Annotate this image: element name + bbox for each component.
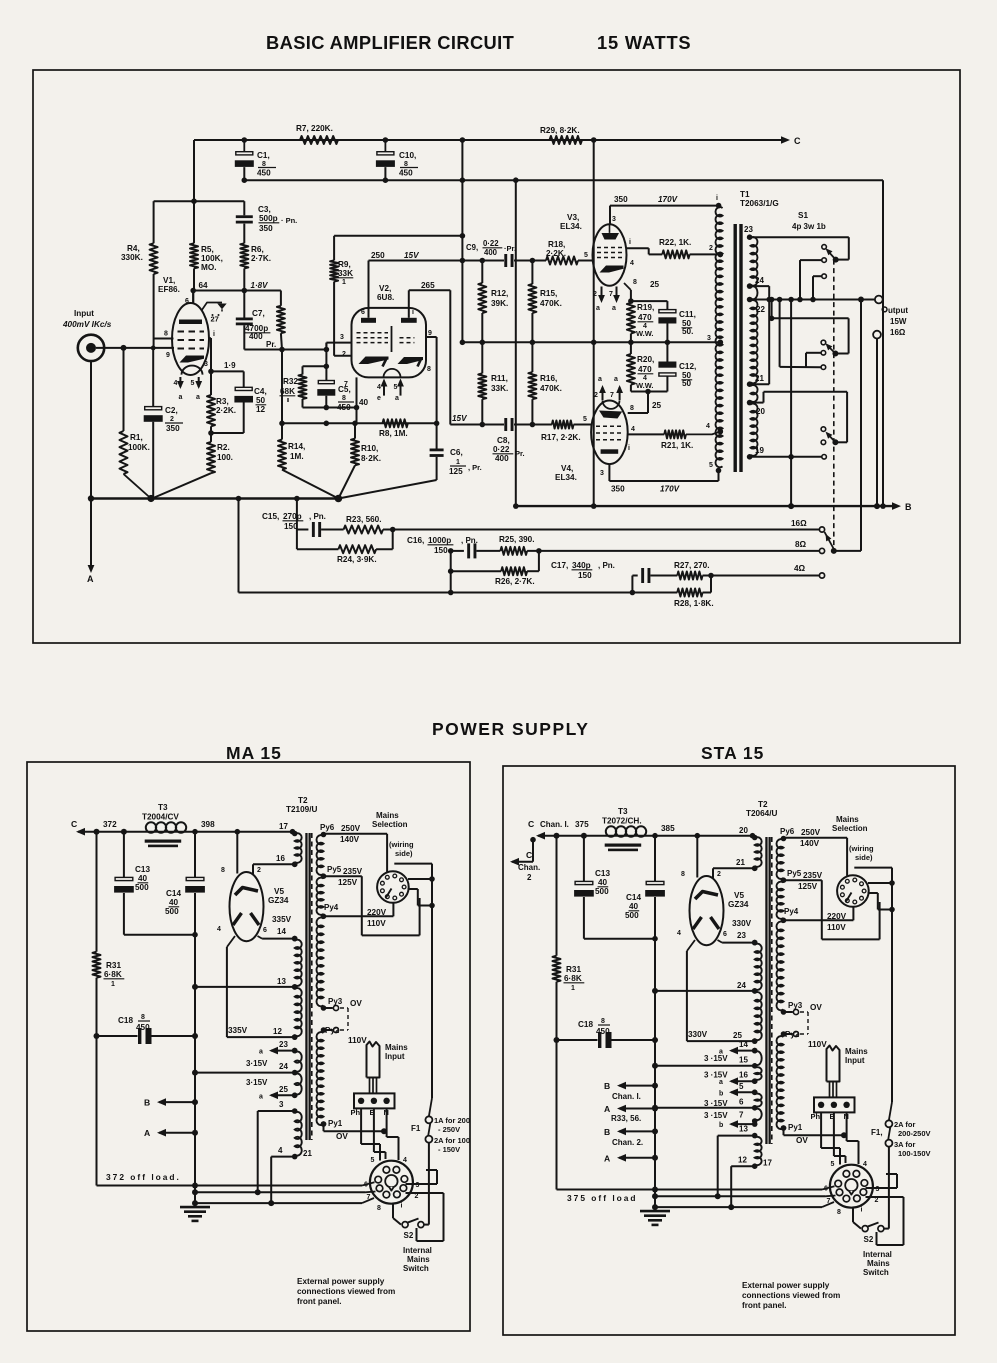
svg-text:450: 450 (257, 169, 271, 178)
svg-text:W.W.: W.W. (636, 329, 654, 338)
V5 pin2 wire (MA15) (252, 864, 254, 874)
svg-text:8: 8 (427, 366, 431, 373)
svg-text:GZ34: GZ34 (268, 896, 289, 905)
resistor R29 (550, 136, 583, 144)
wire 8ohm riser (860, 300, 862, 551)
svg-text:17: 17 (763, 1159, 772, 1168)
svg-text:110V: 110V (808, 1040, 827, 1049)
switch S2 (STA15) (862, 1226, 868, 1232)
tap Py2 (STA15) (784, 1033, 793, 1035)
resistor R23 (344, 526, 383, 534)
svg-text:R2.: R2. (217, 443, 230, 452)
svg-text:7: 7 (739, 1111, 744, 1120)
svg-text:400: 400 (249, 332, 263, 341)
T2 lower tap B (STA15) (731, 1165, 755, 1167)
capacitor C9 (504, 254, 507, 267)
tap Py4 (MA15) (324, 915, 394, 917)
svg-text:6·8K: 6·8K (104, 970, 122, 979)
resistor R12 (481, 261, 483, 284)
svg-text:(wiring: (wiring (849, 844, 874, 853)
switch S1 bank1 (833, 257, 839, 263)
svg-text:connections viewed from: connections viewed from (297, 1287, 395, 1296)
T2 lower tap B (MA15) (271, 1156, 295, 1158)
svg-text:1·9: 1·9 (224, 361, 236, 370)
svg-text:C8,: C8, (497, 436, 510, 445)
svg-text:7: 7 (609, 291, 613, 298)
svg-text:2·2K.: 2·2K. (216, 406, 236, 415)
power supply border frame (MA15) (27, 762, 470, 1331)
svg-text:R33, 56.: R33, 56. (611, 1114, 641, 1123)
svg-text:3·15V: 3·15V (246, 1059, 268, 1068)
T2 secondary coil top (MA15) (295, 833, 302, 863)
wire 4 ohm line (711, 575, 820, 577)
svg-text:3: 3 (279, 1100, 284, 1109)
svg-text:33K: 33K (338, 269, 353, 278)
svg-text:R15,: R15, (540, 289, 557, 298)
svg-text:15: 15 (739, 1055, 748, 1064)
svg-text:2: 2 (875, 1197, 879, 1204)
V5 top electrode (STA15) (695, 892, 718, 900)
svg-text:350: 350 (166, 424, 180, 433)
T2 lower tap A (MA15) (258, 1110, 295, 1112)
svg-text:21: 21 (755, 374, 764, 383)
terminal B arrow (MA15) (159, 1101, 195, 1103)
svg-text:OV: OV (350, 999, 362, 1008)
chassis ground (STA15) (654, 1207, 656, 1211)
svg-text:8: 8 (221, 867, 225, 874)
tap Py5 (STA15) (784, 879, 822, 881)
resistor R20 (630, 342, 632, 354)
resistor R1 (121, 345, 127, 351)
V1 cathode plate (180, 356, 205, 363)
svg-text:270p: 270p (283, 512, 302, 521)
wire C8 to R17 (514, 424, 552, 426)
svg-text:372 off load.: 372 off load. (106, 1172, 181, 1182)
wire Pr node drop (281, 350, 283, 424)
svg-text:12: 12 (273, 1027, 282, 1036)
wire C16 bottom drop (450, 571, 452, 592)
svg-text:Internal: Internal (403, 1246, 432, 1255)
T2 heater tap arrow (MA15) (271, 1094, 295, 1096)
svg-text:R25, 390.: R25, 390. (499, 535, 535, 544)
wire output row (750, 299, 875, 301)
V1 pin 8 stub (153, 338, 173, 340)
svg-text:R20,: R20, (637, 355, 654, 364)
resistor R31 (STA15) (556, 836, 558, 956)
svg-text:27: 27 (211, 315, 219, 324)
V5 pin8 wire (STA15) (696, 836, 698, 878)
resistor R27 (677, 572, 702, 580)
resistor R18 (546, 257, 578, 265)
T1 secondary coil s2 (751, 286, 758, 299)
svg-text:Chan. 2.: Chan. 2. (612, 1138, 643, 1147)
svg-text:6·8K: 6·8K (564, 974, 582, 983)
resistor R3 (207, 395, 215, 426)
svg-text:i: i (628, 445, 630, 452)
octal socket (STA15) (830, 1165, 873, 1208)
svg-text:8: 8 (164, 331, 168, 338)
svg-text:C: C (794, 136, 801, 146)
terminal A arrow (MA15) (159, 1132, 195, 1134)
svg-text:F1: F1 (411, 1124, 421, 1133)
wire tap24 link (749, 285, 770, 287)
wire to V2 pin3 (325, 343, 327, 350)
svg-text:B: B (604, 1081, 610, 1091)
svg-text:C4,: C4, (254, 387, 267, 396)
svg-text:1: 1 (342, 279, 346, 286)
svg-text:R18,: R18, (548, 240, 565, 249)
T2 heater coil (STA15) (755, 1109, 762, 1120)
wire centre tap rail (462, 341, 720, 343)
capacitor C14 (STA15) (654, 836, 656, 882)
output terminal lower (873, 331, 881, 339)
svg-text:8: 8 (837, 1209, 841, 1216)
svg-text:33K.: 33K. (491, 384, 508, 393)
svg-text:EL34.: EL34. (555, 473, 577, 482)
svg-text:4: 4 (403, 1157, 407, 1164)
svg-text:MO.: MO. (201, 263, 216, 272)
svg-text:3: 3 (204, 361, 208, 368)
svg-text:21: 21 (736, 858, 745, 867)
wire HT line (MA15) (97, 831, 147, 833)
svg-text:connections viewed from: connections viewed from (742, 1291, 840, 1300)
wire rotary to fuse bus (MA15) (431, 864, 433, 1098)
svg-text:15 WATTS: 15 WATTS (597, 32, 691, 53)
resistor R19 (627, 303, 635, 334)
svg-text:5: 5 (583, 416, 587, 423)
svg-text:Mains: Mains (407, 1255, 430, 1264)
svg-text:330K.: 330K. (121, 253, 143, 262)
svg-text:i: i (629, 239, 631, 246)
svg-text:T2064/U: T2064/U (746, 809, 777, 818)
svg-text:a: a (719, 1079, 723, 1086)
chassis ground (MA15) (194, 1203, 196, 1207)
svg-text:3 ·15V: 3 ·15V (704, 1054, 728, 1063)
svg-text:Py1: Py1 (328, 1119, 343, 1128)
svg-text:R6,: R6, (251, 245, 264, 254)
svg-text:Internal: Internal (863, 1250, 892, 1259)
svg-text:R27, 270.: R27, 270. (674, 561, 710, 570)
svg-text:B: B (604, 1127, 610, 1137)
V5 anode plates (STA15) (693, 917, 702, 929)
switch S1 bank2 (832, 351, 838, 357)
choke T3 (STA15) (606, 826, 616, 836)
tap Py3 (STA15) (784, 1011, 793, 1013)
svg-text:BASIC AMPLIFIER CIRCUIT: BASIC AMPLIFIER CIRCUIT (266, 32, 514, 53)
svg-text:Py6: Py6 (320, 823, 335, 832)
svg-text:A: A (604, 1104, 610, 1114)
mains input plug (MA15) (367, 1042, 380, 1078)
svg-text:250V: 250V (341, 824, 361, 833)
T2 core (MA15) (305, 833, 307, 1140)
capacitor C12 (666, 342, 668, 361)
svg-text:50: 50 (682, 379, 692, 388)
wire 8 ohm line (527, 550, 819, 552)
svg-text:4: 4 (863, 1161, 867, 1168)
resistor R9 (334, 235, 462, 237)
terminal B arrow (STA15) (619, 1130, 655, 1132)
svg-text:13: 13 (739, 1125, 748, 1134)
wire bank1 pole3 (813, 275, 822, 277)
terminal A arrow (STA15) (619, 1108, 655, 1110)
svg-text:2·7K.: 2·7K. (251, 254, 271, 263)
svg-text:T1: T1 (740, 190, 750, 199)
capacitor C4 (243, 371, 245, 387)
input terminal (78, 335, 104, 361)
svg-text:23: 23 (744, 225, 753, 234)
svg-text:450: 450 (596, 1027, 610, 1036)
wire 335V row (STA15) (687, 1040, 755, 1042)
svg-text:C13: C13 (595, 869, 610, 878)
V5 top electrode (MA15) (235, 888, 258, 896)
V1 grid cap bar (179, 320, 202, 325)
svg-text:Pr.: Pr. (266, 340, 276, 349)
capacitor C13 (STA15) (583, 836, 585, 882)
svg-text:STA 15: STA 15 (701, 743, 764, 763)
svg-text:EL34.: EL34. (560, 222, 582, 231)
wire vertical HT feed x462 (461, 140, 463, 342)
svg-text:2A for 100: 2A for 100 (434, 1136, 470, 1145)
V4 dashes (596, 425, 623, 427)
junction dots top rails (242, 137, 248, 143)
svg-text:R22, 1K.: R22, 1K. (659, 238, 691, 247)
svg-text:C: C (526, 850, 532, 860)
svg-text:50.: 50. (682, 327, 693, 336)
svg-text:470: 470 (638, 365, 652, 374)
svg-text:Input: Input (74, 309, 94, 318)
wire socket to fuse (STA15) (834, 1155, 846, 1157)
svg-text:R5,: R5, (201, 245, 214, 254)
svg-text:5: 5 (191, 380, 195, 387)
wire C9 to R18 (514, 260, 546, 262)
svg-text:External power supply: External power supply (297, 1277, 385, 1286)
V2 pins 4 5 arrows (383, 381, 385, 396)
svg-text:i: i (401, 1203, 403, 1210)
T2 heater coil (STA15) (755, 1067, 762, 1080)
svg-text:40: 40 (169, 898, 179, 907)
svg-text:3: 3 (707, 335, 711, 342)
svg-text:14: 14 (277, 927, 286, 936)
svg-text:T3: T3 (618, 807, 628, 816)
svg-text:Mains: Mains (385, 1043, 408, 1052)
svg-text:S2: S2 (864, 1235, 874, 1244)
capacitor C17 (631, 576, 633, 593)
V3 pin1 wire (627, 247, 649, 249)
svg-text:MA 15: MA 15 (226, 743, 282, 763)
svg-text:5: 5 (394, 384, 398, 391)
V4 top plate (599, 411, 622, 419)
svg-text:Input: Input (845, 1056, 865, 1065)
wire vertical HT feed x516 (515, 180, 517, 506)
svg-text:100K.: 100K. (128, 443, 150, 452)
svg-text:500: 500 (595, 887, 609, 896)
svg-text:250V: 250V (801, 828, 821, 837)
svg-text:Py5: Py5 (787, 869, 802, 878)
resistor R25 (500, 547, 527, 555)
svg-text:40: 40 (138, 874, 148, 883)
resistor R2 (207, 442, 215, 473)
svg-text:R19,: R19, (637, 303, 654, 312)
wire vertical HT feed x594 (593, 140, 595, 506)
svg-text:Pr.: Pr. (515, 449, 525, 458)
fuse F1 (MA15) (425, 1116, 432, 1123)
svg-text:C6,: C6, (450, 448, 463, 457)
wire B rail (516, 505, 893, 507)
svg-text:100K,: 100K, (201, 254, 223, 263)
resistor R24 (296, 530, 298, 550)
svg-text:8: 8 (377, 1205, 381, 1212)
svg-text:1: 1 (456, 459, 460, 466)
wire main vertical to ground (MA15) (194, 1186, 196, 1204)
svg-text:5: 5 (739, 1082, 744, 1091)
svg-text:40: 40 (598, 878, 608, 887)
wire row to tap13 (STA15) (655, 990, 755, 992)
svg-text:a: a (395, 395, 399, 402)
svg-text:25: 25 (652, 401, 662, 410)
svg-text:125: 125 (449, 467, 463, 476)
choke T3 (MA15) (146, 822, 156, 832)
svg-text:3: 3 (600, 470, 604, 477)
svg-text:25: 25 (733, 1031, 742, 1040)
wire 16 ohm line (383, 529, 820, 531)
resistor R32 (303, 365, 327, 367)
wire input ground drop to A (90, 361, 92, 567)
svg-text:Chan. I.: Chan. I. (540, 820, 569, 829)
svg-text:R21, 1K.: R21, 1K. (661, 441, 693, 450)
svg-text:500: 500 (165, 907, 179, 916)
svg-text:Mains: Mains (376, 811, 399, 820)
V1 pins 4 5 arrows (179, 377, 181, 387)
svg-text:4: 4 (377, 384, 381, 391)
wire bottom bus A (STA15) (557, 1189, 823, 1191)
terminal C Chan2 arrow (STA15) (512, 861, 533, 863)
svg-text:R11,: R11, (491, 374, 508, 383)
V1 pin 6 top (192, 291, 194, 304)
svg-text:8: 8 (601, 1018, 605, 1025)
T2 secondary coil low (STA15) (755, 992, 762, 1040)
svg-text:1A for 200: 1A for 200 (434, 1116, 470, 1125)
svg-text:375: 375 (575, 820, 589, 829)
V2 left cathode plate (359, 357, 389, 365)
wire R20 C12 bottom (631, 391, 668, 393)
svg-text:4p 3w 1b: 4p 3w 1b (792, 222, 826, 231)
V5 pin6 wire (STA15) (718, 940, 723, 943)
V1 bottom arc (182, 366, 203, 375)
svg-text:, Pn.: , Pn. (598, 561, 615, 570)
resistor R6 (240, 243, 248, 268)
svg-text:125V: 125V (338, 878, 358, 887)
svg-text:2A for: 2A for (894, 1120, 915, 1129)
svg-text:110V: 110V (827, 923, 846, 932)
svg-text:b: b (719, 1122, 723, 1129)
svg-text:R3,: R3, (216, 397, 229, 406)
resistor R10 (354, 423, 356, 438)
svg-text:5: 5 (371, 1157, 375, 1164)
V1 metallising ground (202, 303, 223, 311)
V3 dashes (597, 247, 622, 249)
svg-text:110V: 110V (367, 919, 386, 928)
amplifier schematic border frame (33, 70, 960, 643)
svg-text:Switch: Switch (863, 1268, 889, 1277)
terminal C arrow (STA15) (538, 835, 557, 837)
svg-text:a: a (596, 305, 600, 312)
svg-text:8·2K.: 8·2K. (361, 454, 381, 463)
svg-text:6: 6 (723, 931, 727, 938)
svg-text:0·22: 0·22 (493, 445, 510, 454)
svg-text:4: 4 (706, 423, 710, 430)
T2 lower tap A (STA15) (718, 1135, 755, 1137)
rotary mains selector (STA15) (837, 875, 869, 907)
svg-text:C10,: C10, (399, 151, 416, 160)
svg-text:350: 350 (614, 195, 628, 204)
svg-text:S2: S2 (404, 1231, 414, 1240)
terminal C arrow (MA15) (78, 831, 97, 833)
svg-text:335V: 335V (228, 1026, 248, 1035)
svg-text:6: 6 (263, 927, 267, 934)
node pin3 1.9 (208, 369, 214, 375)
wire rotary to fuse bus (STA15) (891, 868, 893, 1102)
svg-text:5: 5 (584, 252, 588, 259)
svg-text:2: 2 (594, 392, 598, 399)
switch blade 16-8 (825, 532, 834, 549)
svg-text:Selection: Selection (372, 820, 408, 829)
T2 heater tap label (STA15) (752, 1090, 758, 1096)
svg-text:(wiring: (wiring (389, 840, 414, 849)
wire switch bus drop (790, 300, 792, 507)
V2 right grid bar (401, 318, 417, 323)
svg-text:C17,: C17, (551, 561, 568, 570)
svg-text:350: 350 (611, 485, 625, 494)
T2 heater tap arrow (STA15) (731, 1080, 755, 1082)
svg-text:C2,: C2, (165, 406, 178, 415)
svg-text:16: 16 (739, 1071, 748, 1080)
wire bank1 pole2 (800, 259, 822, 261)
rotary loop wires (STA15) (854, 867, 892, 869)
svg-text:front panel.: front panel. (297, 1297, 342, 1306)
V5 anode plates (MA15) (233, 913, 242, 925)
wire main vertical (STA15) (654, 939, 656, 1190)
svg-text:A: A (604, 1153, 610, 1163)
svg-text:GZ34: GZ34 (728, 900, 749, 909)
svg-text:a: a (612, 305, 616, 312)
wire 335V row (MA15) (227, 1036, 295, 1038)
svg-text:Mains: Mains (845, 1047, 868, 1056)
V2 left grid bar (361, 318, 376, 323)
svg-text:OV: OV (796, 1136, 808, 1145)
svg-text:R1,: R1, (130, 433, 143, 442)
svg-text:24: 24 (755, 276, 764, 285)
svg-text:16: 16 (276, 854, 285, 863)
svg-text:6: 6 (361, 309, 365, 316)
V5 pin8 wire (MA15) (236, 832, 238, 874)
tap Py5 (MA15) (324, 875, 362, 877)
svg-text:Input: Input (385, 1052, 405, 1061)
svg-text:13: 13 (277, 977, 286, 986)
svg-text:24: 24 (279, 1062, 288, 1071)
capacitor C15 (297, 529, 309, 531)
output terminal 15W (875, 296, 883, 304)
svg-text:8: 8 (630, 405, 634, 412)
svg-text:T2004/CV: T2004/CV (142, 813, 179, 822)
tap Py1 (STA15) (783, 1128, 785, 1135)
T2 heater tap wire (STA15) (655, 1107, 755, 1109)
svg-text:W.W.: W.W. (636, 381, 654, 390)
svg-text:Ph: Ph (811, 1112, 821, 1121)
svg-text:C: C (71, 819, 77, 829)
svg-text:a: a (259, 1093, 263, 1100)
svg-text:400: 400 (484, 248, 498, 257)
svg-text:V2,: V2, (379, 284, 391, 293)
